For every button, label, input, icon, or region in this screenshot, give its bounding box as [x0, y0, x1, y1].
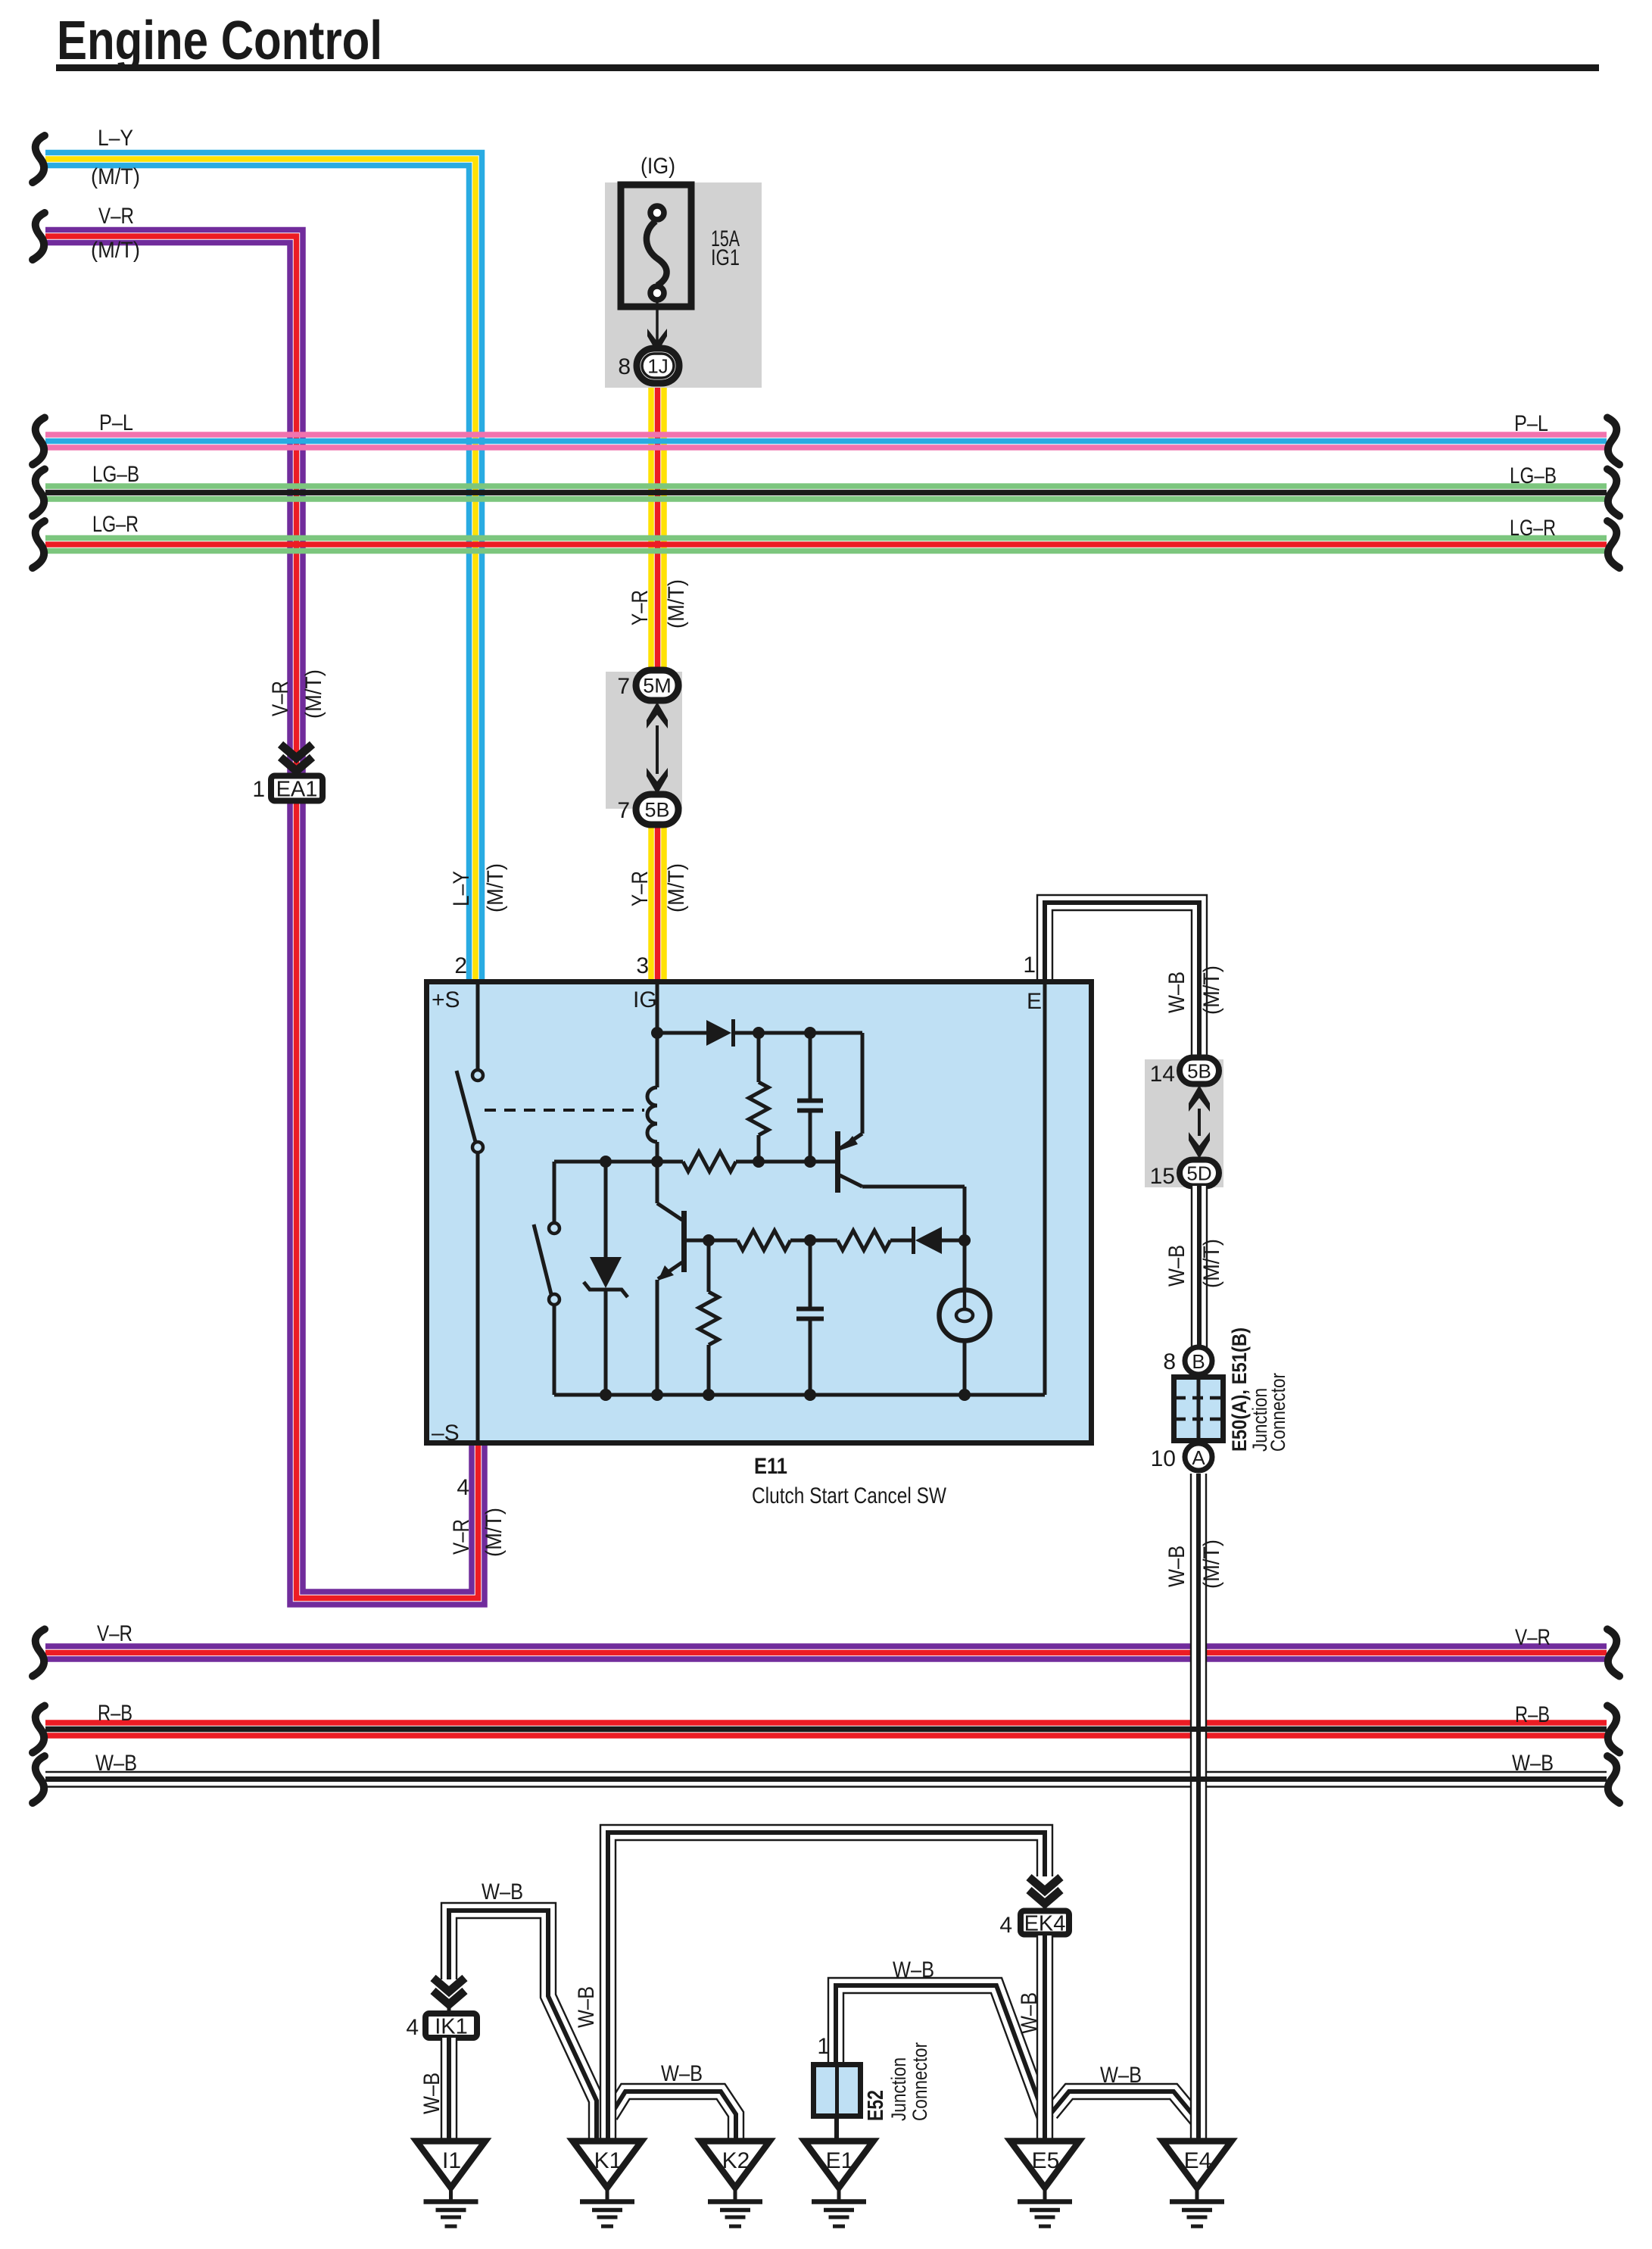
wire W-B IK1 to I1 ground [419, 2038, 457, 2140]
wire W-B EK4 to E5 ground [1017, 1936, 1052, 2140]
svg-text:R–B: R–B [1515, 1702, 1550, 1727]
svg-text:10: 10 [1151, 1446, 1176, 1471]
brace LG-R right [1607, 521, 1619, 568]
wire W-B across page [45, 1751, 1607, 1787]
svg-text:EA1: EA1 [276, 778, 318, 802]
fuse 15A IG1 [605, 154, 762, 388]
svg-text:E5: E5 [1032, 2148, 1060, 2173]
connector 1J pin 8 [618, 348, 679, 383]
connector 5M pin 7 to 5B pin 7 [606, 670, 682, 825]
wire P-L across page [45, 410, 1607, 448]
wire W-B E52 drop [828, 1957, 1052, 2122]
label E50(A) E51(B) Junction Connector [1228, 1327, 1289, 1452]
wire Q2 emitter down [656, 1280, 659, 1395]
wire W-B K1 to K2 [604, 2061, 744, 2140]
svg-text:(M/T): (M/T) [301, 669, 326, 719]
connector 5B pin 14 to 5D pin 15 [1145, 1058, 1223, 1190]
wire V-R across page lower [45, 1621, 1607, 1659]
brace V-R low right [1607, 1630, 1619, 1677]
wire W-B K1 riser to EK4 [600, 1825, 1052, 2140]
ground E4 [1163, 2141, 1232, 2227]
svg-text:2: 2 [454, 953, 467, 978]
svg-text:LG–B: LG–B [92, 462, 139, 487]
svg-text:W–B: W–B [661, 2061, 703, 2086]
brace W-B right [1607, 1756, 1619, 1803]
svg-text:1: 1 [252, 777, 265, 802]
svg-text:14: 14 [1150, 1062, 1175, 1087]
svg-text:1: 1 [817, 2034, 830, 2059]
transistor Q2 NPN [657, 1203, 684, 1280]
svg-text:I1: I1 [442, 2148, 461, 2173]
svg-text:4: 4 [999, 1913, 1012, 1938]
label L-Y (M/T) above E11 pin 2 [449, 863, 508, 912]
svg-text:15: 15 [1150, 1164, 1175, 1189]
svg-text:Connector: Connector [909, 2042, 931, 2121]
svg-text:B: B [1192, 1350, 1205, 1373]
svg-text:(M/T): (M/T) [1199, 1539, 1224, 1589]
svg-text:E4: E4 [1184, 2148, 1212, 2173]
ground I1 [416, 2141, 485, 2227]
wire R-B black stripe over E4 crossing [1174, 1730, 1223, 1780]
svg-text:8: 8 [618, 354, 631, 379]
node bottom rail junctions [600, 1389, 971, 1401]
svg-text:–S: –S [432, 1421, 460, 1446]
svg-text:IG1: IG1 [711, 245, 740, 270]
svg-text:W–B: W–B [574, 1986, 599, 2028]
resistor R3 [737, 1231, 790, 1250]
resistor R4 [837, 1231, 890, 1250]
svg-text:L–Y: L–Y [449, 871, 474, 906]
wire LG-R across page [45, 512, 1607, 551]
node Q2 base junctions [703, 1234, 816, 1246]
svg-text:R–B: R–B [98, 1701, 132, 1726]
switch assembly E11 Clutch Start Cancel SW body [427, 982, 1092, 1443]
svg-text:L–Y: L–Y [98, 126, 133, 151]
svg-text:EK4: EK4 [1024, 1912, 1066, 1936]
svg-text:5B: 5B [644, 799, 669, 822]
title Engine Control [56, 11, 1599, 71]
junction connector E52 pin 1 [814, 2034, 861, 2140]
svg-text:1: 1 [1023, 953, 1036, 978]
wire L-Y (M/T) from left to E11 pin 2 [45, 126, 482, 979]
ground E5 [1011, 2141, 1080, 2227]
svg-text:V–R: V–R [1515, 1625, 1551, 1650]
svg-text:Clutch Start Cancel SW: Clutch Start Cancel SW [752, 1483, 947, 1508]
svg-text:8: 8 [1163, 1349, 1176, 1374]
pin labels E11 [432, 953, 1042, 1508]
brace P-L right [1607, 418, 1619, 465]
svg-text:A: A [1192, 1446, 1205, 1469]
svg-text:IK1: IK1 [435, 2015, 468, 2039]
svg-text:V–R: V–R [268, 681, 293, 716]
ground K1 [573, 2141, 642, 2227]
resistor R5 [699, 1240, 718, 1395]
wire to Q1 emitter [861, 1033, 865, 1134]
wire switch to -S pin [476, 1153, 480, 1443]
wire base line [554, 1160, 835, 1164]
dashed mechanical link [485, 1109, 644, 1112]
connector EA1 pin 1 [252, 744, 323, 802]
svg-text:IG: IG [633, 987, 657, 1012]
node base-line junctions [600, 1156, 816, 1168]
svg-text:E52: E52 [864, 2090, 888, 2121]
svg-text:4: 4 [406, 2015, 419, 2040]
svg-text:Junction: Junction [887, 2057, 910, 2121]
svg-text:E11: E11 [754, 1454, 787, 1479]
wire W-B (M/T) junction connector to E4 ground [1164, 1474, 1224, 2140]
brace R-B right [1607, 1706, 1619, 1753]
brace R-B left [33, 1706, 45, 1753]
svg-text:LG–R: LG–R [92, 512, 139, 537]
wire W-B E5 to E4 link [1045, 2063, 1205, 2127]
svg-text:E1: E1 [826, 2148, 854, 2173]
svg-text:W–B: W–B [419, 2073, 444, 2114]
svg-text:+S: +S [432, 987, 460, 1012]
brace W-B left [33, 1756, 45, 1803]
transistor Q1 PNP [838, 1131, 863, 1193]
label E52 Junction Connector [864, 2042, 931, 2121]
wire W-B IK1 loop to K1 [441, 1879, 604, 2140]
connector IK1 pin 4 [406, 1978, 477, 2040]
svg-text:(M/T): (M/T) [91, 238, 140, 263]
switch S1 clutch start cancel contact [457, 1070, 483, 1153]
svg-text:W–B: W–B [1164, 1546, 1189, 1587]
node IG junction [651, 1027, 663, 1039]
svg-text:5D: 5D [1186, 1162, 1211, 1185]
wire IG to Q2 collector [656, 1162, 659, 1203]
capacitor C2 [796, 1240, 824, 1395]
connector brace L-Y left end [33, 136, 45, 182]
brace P-L left [33, 418, 45, 465]
svg-text:3: 3 [636, 953, 649, 978]
bottom rail [554, 1393, 1045, 1397]
ground E1 [805, 2141, 874, 2227]
connector brace V-R left end [33, 213, 45, 260]
wire Y-R (M/T) from fuse 1J to E11 pin 3 [628, 382, 689, 979]
switch S2 [534, 1162, 559, 1395]
svg-text:K1: K1 [594, 2148, 622, 2173]
svg-text:V–R: V–R [98, 204, 134, 229]
svg-text:(IG): (IG) [641, 154, 675, 179]
svg-text:4: 4 [457, 1475, 469, 1500]
svg-text:5M: 5M [643, 675, 672, 697]
svg-text:V–R: V–R [449, 1519, 474, 1555]
svg-text:1J: 1J [647, 355, 668, 378]
svg-text:W–B: W–B [1164, 1245, 1189, 1287]
svg-text:W–B: W–B [1512, 1751, 1554, 1776]
svg-text:P–L: P–L [99, 410, 133, 435]
wire E pin internal [1043, 981, 1047, 1395]
wire Q1 collector [862, 1187, 965, 1240]
svg-text:Y–R: Y–R [628, 590, 653, 625]
ground K2 [701, 2141, 770, 2227]
brace LG-B right [1607, 469, 1619, 516]
brace LG-B left [33, 469, 45, 516]
svg-text:(M/T): (M/T) [482, 1508, 507, 1557]
svg-text:(M/T): (M/T) [664, 863, 689, 912]
svg-text:W–B: W–B [482, 1879, 523, 1904]
svg-text:LG–R: LG–R [1510, 516, 1556, 541]
svg-text:Connector: Connector [1267, 1373, 1289, 1452]
wire IG pin down [656, 981, 659, 1033]
svg-text:7: 7 [617, 674, 630, 699]
svg-text:(M/T): (M/T) [1199, 1239, 1224, 1288]
svg-text:Engine Control: Engine Control [57, 11, 382, 71]
svg-text:W–B: W–B [1017, 1992, 1042, 2034]
label V-R (M/T) above EA1 [268, 669, 326, 719]
diode D1 [657, 1019, 862, 1047]
junction connector E50(A) E51(B) pins 8/10 [1151, 1347, 1223, 1471]
wire +S pin to switch [476, 981, 480, 1070]
diode D2 [914, 1227, 965, 1254]
resistor R2 [683, 1152, 736, 1171]
indicator lamp [940, 1240, 990, 1395]
label V-R (M/T) at E11 pin 4 [449, 1508, 507, 1557]
svg-text:5B: 5B [1187, 1060, 1211, 1083]
resistor R1 [749, 1033, 768, 1162]
relay coil L1 [647, 1033, 657, 1162]
svg-text:E50(A), E51(B): E50(A), E51(B) [1228, 1327, 1251, 1452]
node top-right junctions [753, 1027, 816, 1039]
svg-text:(M/T): (M/T) [483, 863, 508, 912]
wire LG-B across page [45, 462, 1607, 499]
svg-text:7: 7 [617, 798, 630, 823]
connector EK4 pin 4 [999, 1877, 1069, 1938]
svg-text:W–B: W–B [1164, 972, 1189, 1013]
svg-text:(M/T): (M/T) [91, 164, 140, 189]
svg-text:K2: K2 [722, 2148, 750, 2173]
svg-text:V–R: V–R [97, 1621, 132, 1646]
wire W-B (M/T) 5D to junction connector [1164, 1186, 1224, 1349]
capacitor C1 [797, 1033, 823, 1162]
svg-text:(M/T): (M/T) [664, 579, 689, 629]
wire W-B (M/T) E11 pin 1 loop [1037, 895, 1224, 1059]
svg-text:W–B: W–B [95, 1751, 137, 1776]
svg-text:(M/T): (M/T) [1199, 965, 1224, 1015]
zener diode ZD1 [584, 1162, 628, 1395]
brace LG-R left [33, 521, 45, 568]
wire V-R (M/T) from left through EA1 to E11 pin 4 [45, 204, 485, 1605]
brace V-R low left [33, 1630, 45, 1677]
svg-text:LG–B: LG–B [1510, 463, 1557, 488]
svg-text:W–B: W–B [893, 1957, 934, 1982]
svg-text:P–L: P–L [1514, 411, 1548, 436]
wire R-B across page [45, 1701, 1607, 1736]
wire Q2 base line [684, 1239, 915, 1243]
svg-text:E: E [1027, 989, 1042, 1014]
node D2 out [958, 1234, 971, 1246]
svg-text:Y–R: Y–R [628, 871, 653, 906]
svg-text:W–B: W–B [1100, 2063, 1142, 2088]
